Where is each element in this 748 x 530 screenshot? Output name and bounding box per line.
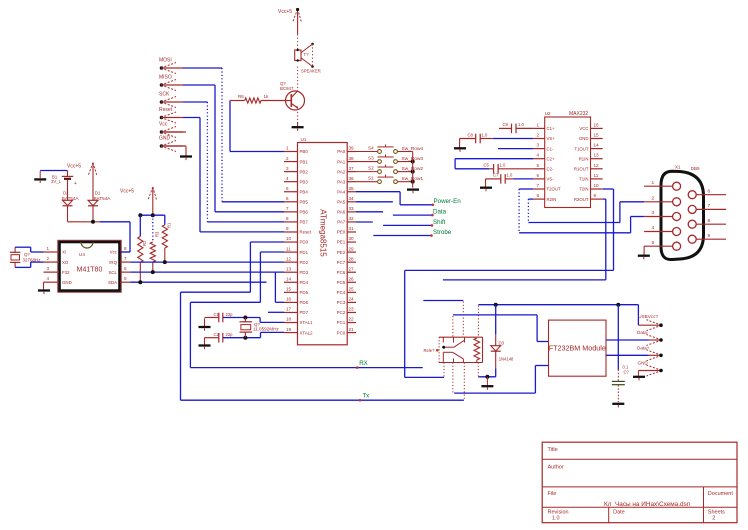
svg-text:VS-: VS- <box>547 177 555 182</box>
svg-text:8: 8 <box>537 193 540 198</box>
svg-text:C7: C7 <box>493 173 499 178</box>
svg-text:XO: XO <box>62 260 69 265</box>
svg-text:4: 4 <box>652 225 655 231</box>
svg-text:25: 25 <box>349 287 355 292</box>
svg-text:13: 13 <box>286 266 292 271</box>
svg-text:Tx: Tx <box>363 393 370 399</box>
svg-text:22p: 22p <box>226 332 234 337</box>
svg-text:R3: R3 <box>155 231 160 237</box>
svg-text:2: 2 <box>286 156 289 161</box>
svg-text:T2IN: T2IN <box>579 187 588 192</box>
svg-text:4: 4 <box>47 276 50 281</box>
svg-text:GND: GND <box>638 360 649 365</box>
svg-text:D2: D2 <box>63 191 69 196</box>
svg-text:Data: Data <box>433 209 447 216</box>
svg-text:3: 3 <box>652 210 655 216</box>
svg-text:SCK: SCK <box>159 92 170 98</box>
svg-text:Rele?: Rele? <box>424 348 436 353</box>
svg-text:34: 34 <box>349 196 355 201</box>
svg-text:12: 12 <box>286 256 292 261</box>
svg-text:12: 12 <box>594 163 600 168</box>
svg-text:R2OUT: R2OUT <box>574 197 589 202</box>
svg-text:22: 22 <box>349 317 355 322</box>
svg-text:PC4: PC4 <box>337 290 346 295</box>
svg-text:PE2: PE2 <box>337 250 346 255</box>
svg-text:8: 8 <box>286 216 289 221</box>
svg-text:1: 1 <box>47 246 50 251</box>
svg-text:1: 1 <box>537 122 540 127</box>
svg-text:PC3: PC3 <box>337 300 346 305</box>
svg-text:C1: C1 <box>214 312 220 317</box>
svg-text:R1: R1 <box>167 222 172 228</box>
svg-text:R2IN: R2IN <box>547 197 557 202</box>
svg-text:11: 11 <box>286 246 291 251</box>
svg-text:16: 16 <box>286 297 292 302</box>
svg-text:PA1: PA1 <box>337 159 346 164</box>
svg-text:1k: 1k <box>264 94 270 99</box>
svg-text:9: 9 <box>286 226 289 231</box>
svg-text:28: 28 <box>349 256 355 261</box>
svg-text:S3: S3 <box>368 155 374 160</box>
svg-text:36: 36 <box>349 176 355 181</box>
svg-text:Sw_Row4: Sw_Row4 <box>402 146 424 152</box>
svg-text:PE1: PE1 <box>337 240 346 245</box>
svg-text:PB7: PB7 <box>300 220 309 225</box>
svg-text:8: 8 <box>124 246 127 251</box>
svg-text:C2: C2 <box>214 332 220 337</box>
svg-text:GND: GND <box>159 136 171 142</box>
svg-text:1.0: 1.0 <box>482 133 488 138</box>
svg-text:BC847: BC847 <box>280 86 294 91</box>
svg-text:PB1: PB1 <box>300 159 309 164</box>
svg-text:Vcc: Vcc <box>110 250 118 255</box>
svg-text:9: 9 <box>594 193 597 198</box>
svg-text:PB6: PB6 <box>300 210 309 215</box>
svg-text:M41T80: M41T80 <box>77 267 103 274</box>
svg-text:6: 6 <box>708 188 711 194</box>
svg-text:PD5: PD5 <box>300 290 309 295</box>
svg-text:5: 5 <box>537 163 540 168</box>
svg-text:D3: D3 <box>499 341 505 346</box>
svg-text:Title: Title <box>548 447 558 453</box>
svg-text:IRQ: IRQ <box>109 260 117 265</box>
svg-text:11.0592MHz: 11.0592MHz <box>253 327 279 332</box>
svg-text:File: File <box>548 491 557 497</box>
svg-text:MAX232: MAX232 <box>569 111 588 117</box>
svg-text:1: 1 <box>286 146 289 151</box>
svg-text:PB3: PB3 <box>300 179 309 184</box>
svg-text:10: 10 <box>286 236 292 241</box>
svg-text:PD4: PD4 <box>300 280 309 285</box>
svg-text:R6: R6 <box>238 94 244 99</box>
svg-text:MISO: MISO <box>159 75 172 81</box>
svg-text:S4: S4 <box>368 145 374 150</box>
svg-text:32768Hz: 32768Hz <box>23 258 42 263</box>
svg-text:1.0: 1.0 <box>552 516 560 522</box>
svg-text:PC5: PC5 <box>337 280 346 285</box>
svg-text:16: 16 <box>594 122 600 127</box>
svg-text:PB0: PB0 <box>300 149 309 154</box>
svg-text:Sheets: Sheets <box>708 510 725 516</box>
svg-text:Strobe: Strobe <box>433 229 452 236</box>
svg-text:FT232BM Module: FT232BM Module <box>549 344 606 353</box>
svg-text:C2-: C2- <box>547 167 554 172</box>
svg-text:PA5: PA5 <box>337 200 346 205</box>
svg-text:SCL: SCL <box>108 270 117 275</box>
svg-text:PC1: PC1 <box>337 320 346 325</box>
svg-text:2: 2 <box>712 516 715 522</box>
svg-text:5: 5 <box>652 240 655 246</box>
svg-text:VCC: VCC <box>579 126 588 131</box>
svg-text:32: 32 <box>349 216 355 221</box>
svg-text:+: + <box>74 181 77 187</box>
svg-text:22p: 22p <box>226 312 234 317</box>
svg-text:1.0: 1.0 <box>507 173 513 178</box>
svg-text:PD1: PD1 <box>300 250 309 255</box>
svg-text:DB9: DB9 <box>691 166 700 171</box>
svg-text:PA4: PA4 <box>337 189 346 194</box>
svg-text:4: 4 <box>537 153 540 158</box>
svg-text:2: 2 <box>652 196 655 202</box>
svg-text:PB4: PB4 <box>300 189 309 194</box>
svg-text:R1OUT: R1OUT <box>574 167 589 172</box>
svg-text:R1IN: R1IN <box>579 156 589 161</box>
svg-text:PC7: PC7 <box>337 260 346 265</box>
svg-text:Кл_Часы на ИНах\Схема.dsn: Кл_Часы на ИНах\Схема.dsn <box>604 501 691 508</box>
svg-text:13: 13 <box>594 153 600 158</box>
svg-text:27: 27 <box>349 266 355 271</box>
svg-text:PC0: PC0 <box>337 330 346 335</box>
svg-text:1N4148: 1N4148 <box>499 357 514 362</box>
svg-text:18: 18 <box>286 317 292 322</box>
svg-text:15: 15 <box>286 287 292 292</box>
svg-text:3: 3 <box>286 166 289 171</box>
svg-text:23: 23 <box>349 307 355 312</box>
svg-text:35: 35 <box>349 186 355 191</box>
svg-text:PB2: PB2 <box>300 169 309 174</box>
svg-text:Q?: Q? <box>24 252 30 257</box>
svg-text:38: 38 <box>349 156 355 161</box>
svg-text:19: 19 <box>286 327 292 332</box>
svg-text:1.0: 1.0 <box>518 122 524 127</box>
svg-text:C2+: C2+ <box>547 156 555 161</box>
svg-text:29: 29 <box>349 246 355 251</box>
svg-text:VS+: VS+ <box>547 136 556 141</box>
svg-text:GND: GND <box>62 280 72 285</box>
svg-text:PA2: PA2 <box>337 169 346 174</box>
svg-text:5: 5 <box>286 186 289 191</box>
svg-text:37: 37 <box>349 166 355 171</box>
svg-text:9: 9 <box>708 233 711 239</box>
svg-text:BAT54A: BAT54A <box>94 196 112 201</box>
svg-text:Vcc+5: Vcc+5 <box>278 9 292 15</box>
svg-text:5: 5 <box>124 276 127 281</box>
svg-text:PA6: PA6 <box>337 210 346 215</box>
svg-text:24: 24 <box>349 297 355 302</box>
svg-text:1: 1 <box>652 180 655 186</box>
svg-text:14: 14 <box>286 276 292 281</box>
svg-text:U2: U2 <box>545 111 551 116</box>
svg-text:14: 14 <box>594 143 600 148</box>
svg-text:SDA: SDA <box>108 280 117 285</box>
svg-text:15: 15 <box>594 133 600 138</box>
svg-text:Reset: Reset <box>300 230 312 235</box>
svg-text:XI: XI <box>62 250 66 255</box>
svg-text:6: 6 <box>286 196 289 201</box>
svg-text:PC6: PC6 <box>337 270 346 275</box>
svg-text:39: 39 <box>349 146 355 151</box>
svg-text:Vcc: Vcc <box>159 122 168 128</box>
svg-text:C9: C9 <box>503 122 509 127</box>
svg-text:C5: C5 <box>484 163 490 168</box>
svg-text:Document: Document <box>708 491 734 497</box>
svg-text:Data-: Data- <box>637 330 649 335</box>
svg-text:21: 21 <box>349 327 355 332</box>
svg-text:Date: Date <box>613 510 625 516</box>
svg-text:T1IN: T1IN <box>579 177 588 182</box>
svg-text:PA7: PA7 <box>337 220 346 225</box>
svg-text:U4: U4 <box>79 252 85 257</box>
svg-text:33: 33 <box>349 206 355 211</box>
svg-text:PD2: PD2 <box>300 260 309 265</box>
svg-text:2: 2 <box>537 133 540 138</box>
svg-text:6: 6 <box>124 266 127 271</box>
svg-text:Power-En: Power-En <box>434 198 462 205</box>
svg-text:S1: S1 <box>368 175 374 180</box>
svg-text:3V_L: 3V_L <box>51 179 62 184</box>
svg-text:T1OUT: T1OUT <box>574 146 588 151</box>
svg-text:6: 6 <box>537 173 540 178</box>
svg-text:ATmega8515: ATmega8515 <box>319 209 328 257</box>
svg-text:Shift: Shift <box>433 219 446 226</box>
svg-text:7: 7 <box>708 203 711 209</box>
svg-text:7: 7 <box>124 256 127 261</box>
svg-text:C8: C8 <box>468 133 474 138</box>
svg-text:GND: GND <box>579 136 589 141</box>
svg-text:USBVcc?: USBVcc? <box>638 314 658 319</box>
svg-text:Vcc+5: Vcc+5 <box>120 189 134 195</box>
svg-text:PA3: PA3 <box>337 179 346 184</box>
svg-text:8: 8 <box>708 218 711 224</box>
svg-text:RX: RX <box>359 361 367 367</box>
svg-text:PD7: PD7 <box>300 310 309 315</box>
svg-text:XTAL1: XTAL1 <box>300 320 314 325</box>
svg-text:T?: T? <box>304 52 310 57</box>
svg-text:F32: F32 <box>62 270 70 275</box>
svg-text:C?: C? <box>624 370 630 375</box>
svg-text:SPEAKER: SPEAKER <box>301 69 321 74</box>
svg-text:11: 11 <box>594 173 599 178</box>
svg-text:17: 17 <box>286 307 292 312</box>
svg-text:C1-: C1- <box>547 146 554 151</box>
svg-text:31: 31 <box>349 226 355 231</box>
svg-text:C1+: C1+ <box>547 126 555 131</box>
svg-text:2: 2 <box>47 256 50 261</box>
svg-text:PB5: PB5 <box>300 200 309 205</box>
svg-text:R2: R2 <box>142 240 147 246</box>
svg-text:7: 7 <box>286 206 289 211</box>
svg-text:X1: X1 <box>675 165 681 170</box>
svg-text:4: 4 <box>286 176 289 181</box>
svg-text:BAT54A: BAT54A <box>62 196 80 201</box>
svg-text:PD6: PD6 <box>300 300 309 305</box>
svg-text:Reset: Reset <box>159 107 173 113</box>
svg-text:Data+: Data+ <box>637 345 650 350</box>
svg-text:U1: U1 <box>301 137 307 142</box>
svg-text:10: 10 <box>594 183 600 188</box>
svg-text:3: 3 <box>47 266 50 271</box>
svg-text:PE0: PE0 <box>337 230 346 235</box>
svg-text:Vcc+5: Vcc+5 <box>67 164 81 170</box>
svg-text:Author: Author <box>548 464 564 470</box>
svg-text:3: 3 <box>537 143 540 148</box>
svg-text:MOSI: MOSI <box>159 58 172 64</box>
svg-text:XTAL2: XTAL2 <box>300 330 314 335</box>
svg-text:1.0: 1.0 <box>500 163 506 168</box>
svg-text:30: 30 <box>349 236 355 241</box>
svg-text:7: 7 <box>537 183 540 188</box>
svg-text:S2: S2 <box>368 165 374 170</box>
svg-text:PD0: PD0 <box>300 240 309 245</box>
svg-text:D1: D1 <box>95 191 101 196</box>
svg-text:PA0: PA0 <box>337 149 346 154</box>
svg-text:PD3: PD3 <box>300 270 309 275</box>
svg-text:26: 26 <box>349 276 355 281</box>
svg-text:PC2: PC2 <box>337 310 346 315</box>
svg-text:T2OUT: T2OUT <box>547 187 561 192</box>
